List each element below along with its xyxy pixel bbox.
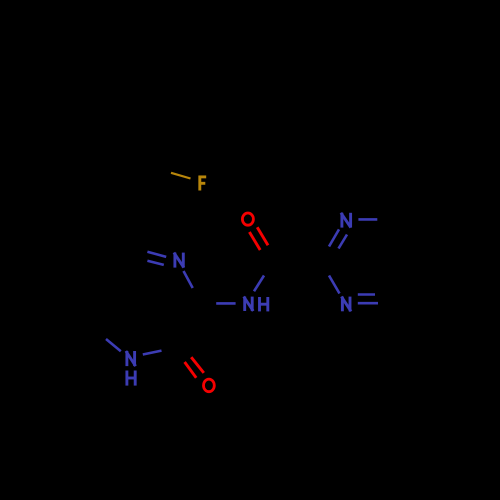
bond N3=C4 double (blue halves) <box>358 302 378 305</box>
amide C=O double bond (red halves) <box>249 232 260 250</box>
bond N1-C8a (blue half) <box>358 218 377 221</box>
bond NH-C(=O) (blue half) <box>254 276 264 292</box>
diazepine N1-H label (stacked) <box>126 351 136 386</box>
ring C2=O double bond (red halves) <box>185 362 197 378</box>
quinazoline N3 (bottom) <box>341 297 351 312</box>
bond C2'-F (goldenrod half) <box>171 173 191 179</box>
bond C5=N4 double (blue halves) <box>147 252 166 257</box>
atom F <box>199 176 207 191</box>
diazepine N4 label <box>174 253 184 268</box>
bond N3-C2 (blue half) <box>329 276 340 294</box>
bond C3-NH (blue half) <box>216 302 235 305</box>
bond C9a-N1H (blue half) <box>106 339 121 351</box>
atom O (amide) <box>242 213 253 225</box>
atom O (ring) <box>204 379 215 392</box>
quinazoline N1 (top) <box>341 213 351 228</box>
amide NH label <box>244 297 268 312</box>
bond N1=C2 double (blue halves) <box>329 229 339 246</box>
bond N4-C3 (blue half) <box>184 271 193 288</box>
bond N1H-C2 (blue half) <box>143 351 162 355</box>
